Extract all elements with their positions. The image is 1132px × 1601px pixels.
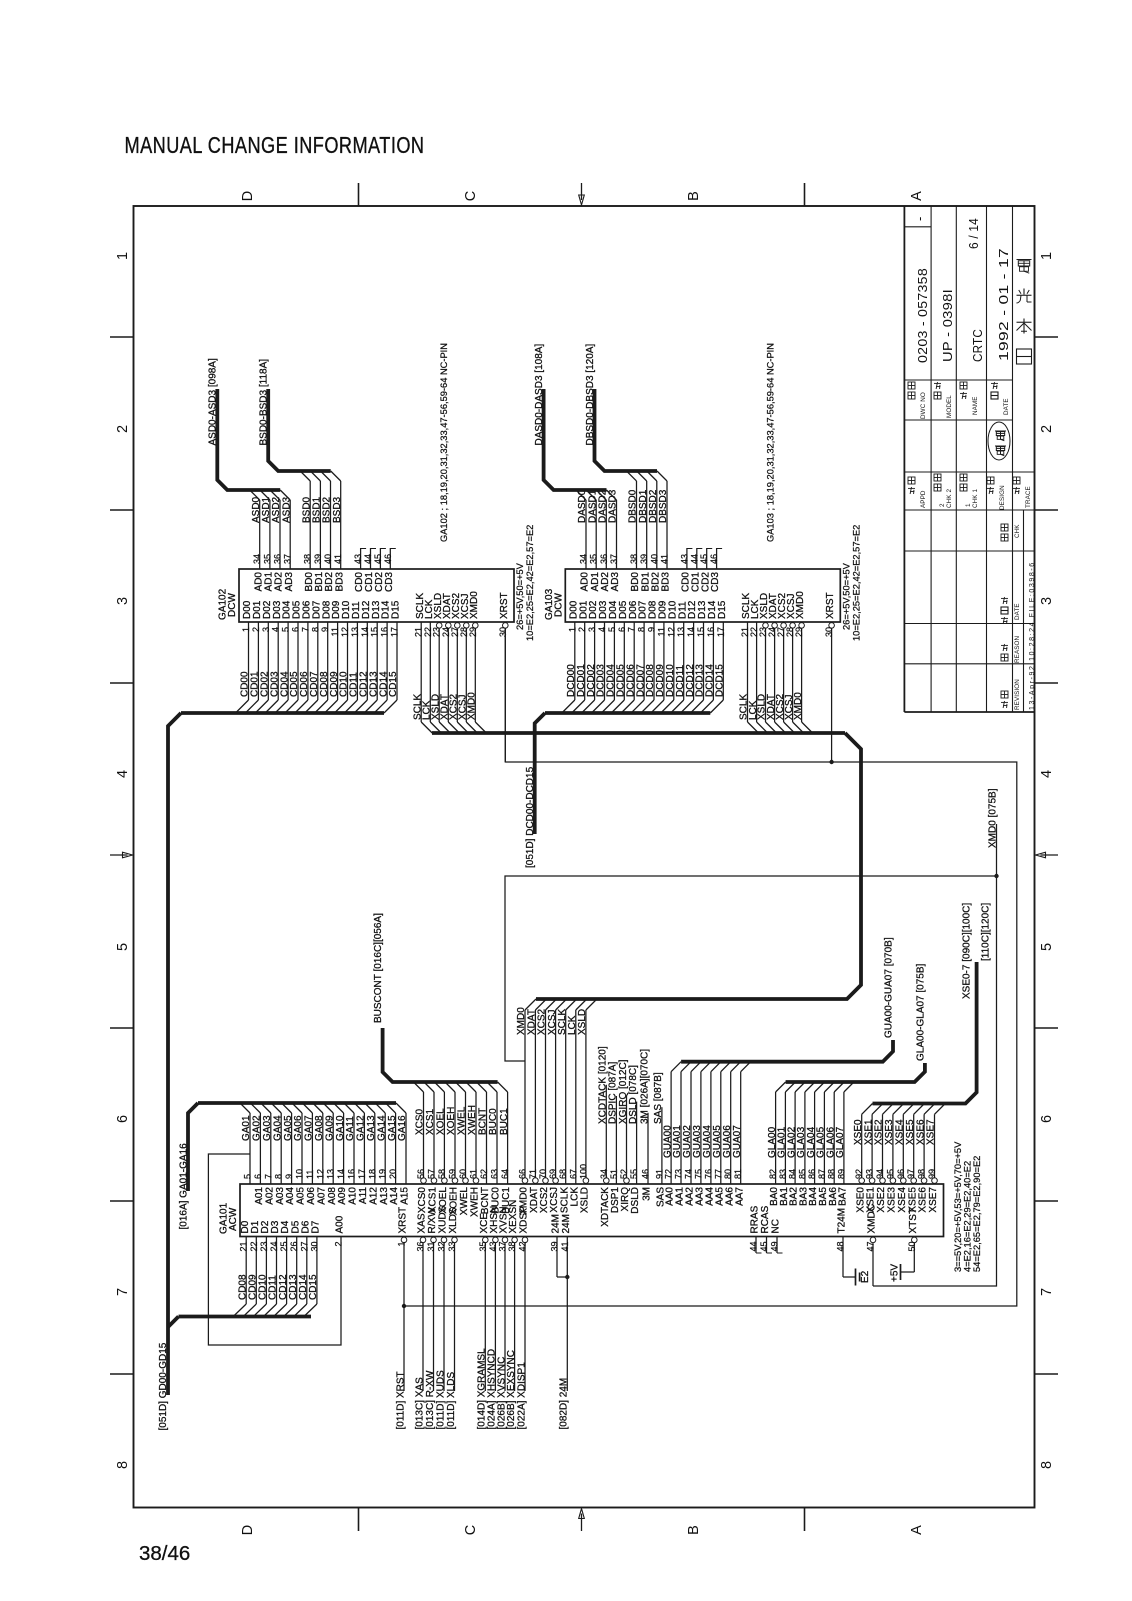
svg-text:18: 18 bbox=[367, 1169, 377, 1179]
GA102 pin 11 D09 net CD09 bbox=[325, 600, 343, 713]
svg-text:XSE6: XSE6 bbox=[915, 1119, 926, 1145]
svg-text:XOEH: XOEH bbox=[446, 1107, 457, 1135]
svg-text:DATE: DATE bbox=[1003, 398, 1010, 415]
bus XSE0-7 thick wire bbox=[873, 962, 977, 1104]
designer stamp bbox=[988, 422, 1010, 460]
GA102 pin 43 CD0 stub bbox=[353, 548, 366, 592]
svg-text:16: 16 bbox=[380, 627, 390, 637]
tick top bbox=[358, 183, 360, 206]
GA101 pin 56 XCS0 bbox=[414, 1082, 429, 1213]
svg-text:GUA00-GUA07 [070B]: GUA00-GUA07 [070B] bbox=[884, 937, 895, 1038]
svg-text:A06: A06 bbox=[306, 1187, 317, 1205]
svg-text:8: 8 bbox=[637, 627, 647, 632]
svg-text:29: 29 bbox=[468, 627, 478, 637]
svg-text:24M: 24M bbox=[561, 1214, 572, 1233]
svg-text:11: 11 bbox=[656, 627, 666, 636]
svg-text:88: 88 bbox=[827, 1169, 837, 1179]
svg-text:92: 92 bbox=[854, 1169, 864, 1179]
bus GA01-GA16 thick wire bbox=[198, 1101, 396, 1105]
GA101 pin 81 AA7 net GUA07 bbox=[732, 1062, 751, 1206]
svg-text:BCNT: BCNT bbox=[478, 1108, 489, 1135]
svg-text:GA01: GA01 bbox=[241, 1115, 252, 1141]
svg-text:3: 3 bbox=[587, 627, 597, 632]
svg-text:[011D] XUDS: [011D] XUDS bbox=[435, 1370, 446, 1430]
tick bottom bbox=[358, 1508, 360, 1532]
svg-text:DESIGN: DESIGN bbox=[999, 485, 1006, 510]
svg-text:GA04: GA04 bbox=[272, 1115, 283, 1141]
svg-text:NC: NC bbox=[771, 1219, 782, 1233]
GA103 pin 12 D10 net DCD10 bbox=[661, 600, 679, 713]
svg-text:B: B bbox=[686, 1525, 702, 1535]
GA101 pin 70 XCS2 bbox=[538, 1169, 550, 1213]
svg-text:XMD0: XMD0 bbox=[795, 591, 806, 619]
GA103 pin 34 AD0 net DASD0 bbox=[576, 489, 591, 591]
svg-text:2: 2 bbox=[251, 627, 261, 632]
svg-text:UP - 0398I: UP - 0398I bbox=[940, 289, 955, 362]
GA101 pin 68 SCLK bbox=[558, 1169, 570, 1213]
GA101 pin 46 3M net 3M bbox=[639, 1049, 652, 1201]
svg-text:11: 11 bbox=[305, 1170, 315, 1179]
GA102 pin 38 BD0 net BSD0 bbox=[300, 471, 315, 591]
svg-text:9: 9 bbox=[320, 627, 330, 632]
bus DCD00-DCD15 thick wire bbox=[545, 711, 710, 715]
svg-text:[026B] XEXSYNC: [026B] XEXSYNC bbox=[506, 1350, 517, 1429]
GA101 pin 52 XIRQ net XGIRQ bbox=[618, 1059, 631, 1211]
svg-text:XSE6: XSE6 bbox=[918, 1187, 929, 1213]
svg-text:13: 13 bbox=[326, 1169, 336, 1179]
svg-text:6: 6 bbox=[253, 1174, 263, 1179]
svg-text:29: 29 bbox=[794, 627, 804, 637]
svg-text:A00: A00 bbox=[335, 1215, 346, 1233]
title block outline bbox=[903, 206, 905, 712]
svg-text:40: 40 bbox=[323, 554, 333, 564]
GA101 pin 33 XLDS bbox=[446, 1207, 459, 1429]
svg-text:4: 4 bbox=[1039, 770, 1055, 778]
GA101 pin 98 XSE6 bbox=[915, 1104, 935, 1213]
bus GUA00-GUA07 thick wire bbox=[681, 1040, 893, 1062]
GA101 pin 62 BCNT bbox=[477, 1082, 492, 1214]
svg-text:RRAS: RRAS bbox=[750, 1205, 761, 1233]
svg-text:XMD0: XMD0 bbox=[516, 1007, 527, 1035]
IC GA103 body bbox=[565, 569, 840, 622]
GA103 pin 36 AD2 net DASD2 bbox=[596, 489, 611, 591]
GA101 pin 11 address line GA08 bbox=[313, 1103, 328, 1205]
svg-text:2: 2 bbox=[1039, 425, 1055, 433]
svg-text:7: 7 bbox=[263, 1174, 273, 1179]
svg-text:37: 37 bbox=[498, 1242, 508, 1252]
svg-text:39: 39 bbox=[639, 554, 649, 564]
svg-text:XWEH: XWEH bbox=[470, 1187, 481, 1217]
svg-text:14: 14 bbox=[686, 627, 696, 637]
svg-text:41: 41 bbox=[333, 554, 343, 564]
GA101 pin 86 BA4 net GLA04 bbox=[806, 1082, 825, 1206]
svg-text:D: D bbox=[240, 191, 256, 201]
svg-text:1: 1 bbox=[1039, 252, 1055, 260]
GA101 pin 32 XUDS bbox=[435, 1205, 448, 1429]
svg-text:BSD3: BSD3 bbox=[332, 496, 343, 523]
bus GLA00-GLA07 thick wire bbox=[786, 1063, 925, 1082]
GA103 pin 24 XDAT bbox=[766, 593, 786, 733]
GA101 pin 75 AA3 net GUA03 bbox=[692, 1062, 711, 1206]
GA101 pin 39 24M bbox=[550, 1214, 568, 1277]
tick left bbox=[110, 682, 134, 684]
svg-text:GA07: GA07 bbox=[304, 1115, 315, 1141]
GA101 pin 57 XCS1 bbox=[424, 1082, 439, 1213]
svg-text:[016A] GA01-GA16: [016A] GA01-GA16 bbox=[178, 1143, 189, 1230]
GA101 pin 24 D3 net CD11 bbox=[264, 1220, 282, 1316]
GA103 pin 8 D07 net DCD07 bbox=[631, 600, 649, 713]
svg-text:BUC1: BUC1 bbox=[499, 1108, 510, 1135]
svg-text:XMD0: XMD0 bbox=[467, 692, 478, 720]
svg-text:47: 47 bbox=[866, 1242, 876, 1252]
GA103 pin 17 D15 net DCD15 bbox=[710, 600, 728, 713]
svg-text:[110C][120C]: [110C][120C] bbox=[980, 903, 991, 961]
label NAME bbox=[960, 392, 967, 394]
GA101 pin 37 XVSN bbox=[496, 1206, 509, 1429]
GA102 pin 36 AD2 net ASD2 bbox=[270, 490, 285, 591]
svg-text:19: 19 bbox=[378, 1169, 388, 1179]
svg-text:REVISION: REVISION bbox=[1014, 679, 1021, 710]
svg-text:DBSD0-DBSD3 [120A]: DBSD0-DBSD3 [120A] bbox=[585, 344, 596, 446]
svg-text:A09: A09 bbox=[337, 1187, 348, 1205]
svg-text:CD3: CD3 bbox=[384, 572, 395, 592]
svg-text:43: 43 bbox=[353, 554, 363, 564]
drawing border frame bbox=[134, 206, 1035, 1508]
GA103 pin 39 BD1 net DBSD1 bbox=[637, 471, 652, 591]
svg-text:4=E2,16=E2,29=E2,40=E2: 4=E2,16=E2,29=E2,40=E2 bbox=[963, 1161, 973, 1272]
GA102 pin 40 BD2 net BSD2 bbox=[321, 471, 336, 591]
svg-text:69: 69 bbox=[548, 1169, 558, 1179]
svg-text:85: 85 bbox=[797, 1169, 807, 1179]
svg-text:67: 67 bbox=[568, 1169, 578, 1179]
svg-text:34: 34 bbox=[252, 554, 262, 564]
svg-text:100: 100 bbox=[578, 1164, 588, 1179]
svg-text:CD3: CD3 bbox=[710, 572, 721, 592]
svg-text:R/XW: R/XW bbox=[427, 1207, 438, 1234]
tick top bbox=[804, 183, 806, 206]
svg-text:8: 8 bbox=[310, 627, 320, 632]
svg-text:33: 33 bbox=[447, 1242, 457, 1252]
svg-text:52: 52 bbox=[619, 1169, 629, 1179]
svg-text:64: 64 bbox=[500, 1169, 510, 1179]
left centre arrow bbox=[110, 854, 128, 856]
tick right bbox=[1035, 1200, 1059, 1202]
svg-text:17: 17 bbox=[390, 627, 400, 637]
svg-text:DASD0-DASD3 [108A]: DASD0-DASD3 [108A] bbox=[534, 344, 545, 446]
svg-text:45: 45 bbox=[759, 1242, 769, 1252]
svg-text:44: 44 bbox=[363, 554, 373, 564]
svg-text:16: 16 bbox=[347, 1169, 357, 1179]
svg-text:14: 14 bbox=[360, 627, 370, 637]
svg-text:37: 37 bbox=[609, 554, 619, 564]
svg-text:SAS [087B]: SAS [087B] bbox=[653, 1072, 664, 1124]
svg-text:5: 5 bbox=[1039, 943, 1055, 951]
GA102 pin 6 D05 net CD05 bbox=[285, 600, 303, 713]
GA101 pin 45 RCAS stub bbox=[759, 1205, 772, 1253]
svg-text:AD3: AD3 bbox=[610, 572, 621, 592]
svg-text:76: 76 bbox=[703, 1169, 713, 1179]
tick left bbox=[110, 1200, 134, 1202]
svg-text:30: 30 bbox=[498, 627, 508, 637]
svg-text:10=E2,25=E2,42=E2,57=E2: 10=E2,25=E2,42=E2,57=E2 bbox=[851, 525, 861, 641]
svg-text:3: 3 bbox=[115, 597, 131, 605]
svg-text:22: 22 bbox=[249, 1242, 259, 1252]
GA101 pin 23 D2 net CD10 bbox=[253, 1220, 271, 1316]
svg-text:94: 94 bbox=[875, 1169, 885, 1179]
svg-text:DASD3: DASD3 bbox=[608, 489, 619, 523]
wire XSLD to GA101 bbox=[577, 999, 597, 1177]
svg-text:27: 27 bbox=[299, 1242, 309, 1252]
svg-text:A03: A03 bbox=[275, 1187, 286, 1205]
GA101 pin 88 BA6 net GLA06 bbox=[825, 1082, 844, 1206]
GA101 pin 8 address line GA05 bbox=[282, 1103, 297, 1205]
svg-text:6: 6 bbox=[617, 627, 627, 632]
svg-text:4: 4 bbox=[271, 627, 281, 632]
GA101 pin 94 XSE2 bbox=[874, 1104, 894, 1213]
svg-text:GA14: GA14 bbox=[376, 1115, 387, 1141]
svg-text:34: 34 bbox=[599, 1169, 609, 1179]
svg-text:56: 56 bbox=[416, 1169, 426, 1179]
GA102 pin 27 XCS2 bbox=[449, 592, 469, 733]
GA101 pin 93 XSE1 bbox=[863, 1104, 883, 1213]
svg-text:38/46: 38/46 bbox=[139, 1542, 190, 1565]
GA103 pin 16 D14 net DCD14 bbox=[700, 600, 718, 713]
wire XCSJ to GA101 bbox=[547, 999, 567, 1177]
GA101 pin 73 AA1 net GUA01 bbox=[672, 1062, 691, 1206]
svg-text:XRST: XRST bbox=[398, 1207, 409, 1234]
svg-text:7: 7 bbox=[115, 1288, 131, 1296]
GA101 pin 55 DSLD net DSLD bbox=[628, 1065, 641, 1214]
svg-text:70: 70 bbox=[538, 1169, 548, 1179]
bottom centre arrow bbox=[581, 1514, 583, 1532]
GA101 pin 16 address line GA12 bbox=[354, 1103, 369, 1204]
GA101 pin 19 address line GA15 bbox=[386, 1103, 401, 1205]
GA101 pin 99 XSE7 bbox=[926, 1104, 946, 1213]
GA101 pin 76 AA4 net GUA04 bbox=[702, 1062, 721, 1206]
GA103 pin 44 CD1 stub bbox=[689, 548, 702, 592]
svg-text:34: 34 bbox=[579, 554, 589, 564]
svg-text:12: 12 bbox=[315, 1169, 325, 1179]
label DATE bbox=[991, 392, 998, 399]
GA102 pin 7 D06 net CD06 bbox=[295, 600, 313, 713]
GA102 pin 45 CD2 stub bbox=[373, 548, 386, 592]
label DWG NO bbox=[908, 392, 915, 399]
svg-text:14: 14 bbox=[336, 1169, 346, 1179]
tick left bbox=[110, 509, 134, 511]
svg-text:GA13: GA13 bbox=[366, 1115, 377, 1141]
svg-text:D7: D7 bbox=[311, 1220, 322, 1233]
svg-text:30: 30 bbox=[309, 1242, 319, 1252]
GA103 pin 22 LCK bbox=[748, 599, 768, 733]
svg-text:[051D] GD00-GD15: [051D] GD00-GD15 bbox=[158, 1342, 169, 1430]
GA101 pin 25 D4 net CD12 bbox=[274, 1220, 292, 1316]
svg-text:+5V: +5V bbox=[890, 1264, 901, 1282]
GA101 pin 97 XSE5 bbox=[905, 1104, 925, 1213]
svg-text:CRTC: CRTC bbox=[970, 329, 985, 362]
svg-text:TRACE: TRACE bbox=[1025, 486, 1032, 508]
ground E2 symbol bbox=[856, 1269, 872, 1286]
svg-text:GA02: GA02 bbox=[252, 1115, 263, 1141]
svg-text:81: 81 bbox=[733, 1169, 743, 1179]
GA101 pin 67 LCK bbox=[568, 1169, 580, 1206]
svg-text:5: 5 bbox=[115, 943, 131, 951]
svg-text:XSE0-7 [090C][100C]: XSE0-7 [090C][100C] bbox=[962, 903, 973, 999]
GA103 pin 15 D13 net DCD13 bbox=[691, 600, 709, 713]
svg-text:A13: A13 bbox=[379, 1187, 390, 1205]
svg-text:8: 8 bbox=[1039, 1461, 1055, 1469]
svg-text:23: 23 bbox=[259, 1242, 269, 1252]
svg-text:74: 74 bbox=[684, 1169, 694, 1179]
GA101 pin 41 24M net 24M bbox=[559, 1214, 572, 1429]
wire XCS2 to GA101 bbox=[537, 999, 557, 1177]
svg-text:CD15: CD15 bbox=[308, 1274, 319, 1300]
svg-text:45: 45 bbox=[373, 554, 383, 564]
svg-text:MODEL: MODEL bbox=[946, 395, 953, 418]
svg-text:GA15: GA15 bbox=[387, 1115, 398, 1141]
svg-text:45: 45 bbox=[699, 554, 709, 564]
svg-text:DCW: DCW bbox=[227, 593, 238, 617]
svg-text:XSE7: XSE7 bbox=[928, 1187, 939, 1213]
GA102 pin 17 D15 net CD15 bbox=[384, 600, 402, 713]
GA101 pin 50 XTST bbox=[901, 1208, 919, 1272]
svg-text:GA03: GA03 bbox=[262, 1115, 273, 1141]
GA103 pin 7 D06 net DCD06 bbox=[621, 600, 639, 713]
GA101 pin 95 XSE3 bbox=[884, 1104, 904, 1213]
svg-text:40: 40 bbox=[649, 554, 659, 564]
label APPD bbox=[908, 487, 915, 489]
svg-text:31: 31 bbox=[426, 1242, 436, 1252]
GA101 pin 34 XDTACK net XCDTACK bbox=[598, 1046, 611, 1227]
svg-text:62: 62 bbox=[479, 1169, 489, 1179]
GA102 pin 13 D11 net CD11 bbox=[344, 601, 362, 713]
svg-text:13: 13 bbox=[350, 627, 360, 637]
svg-text:51: 51 bbox=[609, 1169, 619, 1179]
bus BSD0-BSD3 thick wire bbox=[268, 389, 331, 471]
GA101 pin 60 XWEL bbox=[456, 1082, 471, 1215]
GA103 pin 6 D05 net DCD05 bbox=[611, 600, 629, 713]
svg-text:XCS1: XCS1 bbox=[425, 1108, 436, 1135]
GA101 pin 63 BUC0 bbox=[487, 1082, 502, 1214]
svg-text:46: 46 bbox=[641, 1169, 651, 1179]
GA103 pin 29 XMD0 bbox=[793, 591, 813, 733]
svg-text:6: 6 bbox=[1039, 1115, 1055, 1123]
revision table row lines bbox=[904, 550, 1034, 552]
svg-text:36: 36 bbox=[273, 554, 283, 564]
GA102 pin 39 BD1 net BSD1 bbox=[310, 471, 325, 591]
svg-text:REASON: REASON bbox=[1014, 635, 1021, 663]
net XRST wire bbox=[404, 629, 1017, 1306]
tick right bbox=[1035, 682, 1059, 684]
svg-text:XCS0: XCS0 bbox=[415, 1108, 426, 1135]
svg-text:9: 9 bbox=[647, 627, 657, 632]
svg-text:26=+5V,50=+5V: 26=+5V,50=+5V bbox=[515, 562, 525, 630]
revision table label CHK bbox=[1001, 534, 1008, 541]
GA101 pin address line GA01 bbox=[240, 1103, 253, 1184]
svg-text:XLDS: XLDS bbox=[448, 1207, 459, 1233]
svg-text:11: 11 bbox=[330, 627, 340, 636]
svg-text:25: 25 bbox=[279, 1242, 289, 1252]
svg-text:58: 58 bbox=[437, 1169, 447, 1179]
svg-text:50: 50 bbox=[907, 1242, 917, 1252]
svg-text:XSLD: XSLD bbox=[577, 1009, 588, 1035]
svg-text:96: 96 bbox=[896, 1169, 906, 1179]
svg-text:XTST: XTST bbox=[908, 1208, 919, 1234]
svg-text:XSE4: XSE4 bbox=[895, 1119, 906, 1145]
GA103 pin 46 CD3 stub bbox=[709, 548, 722, 592]
revision table label REVISION bbox=[1001, 701, 1008, 703]
GA102 pin 29 XMD0 bbox=[467, 591, 487, 733]
svg-text:A14: A14 bbox=[389, 1187, 400, 1205]
svg-text:XMD0: XMD0 bbox=[469, 591, 480, 619]
svg-text:[011D] XLDS: [011D] XLDS bbox=[446, 1372, 457, 1430]
svg-text:A02: A02 bbox=[264, 1187, 275, 1205]
net XMD0 wire bbox=[996, 824, 998, 876]
svg-text:B: B bbox=[686, 191, 702, 201]
svg-text:35: 35 bbox=[478, 1242, 488, 1252]
svg-text:71: 71 bbox=[528, 1169, 538, 1179]
tick right bbox=[1035, 509, 1059, 511]
GA102 pin 35 AD1 net ASD1 bbox=[260, 490, 275, 591]
svg-text:66: 66 bbox=[518, 1169, 528, 1179]
svg-text:XAS: XAS bbox=[417, 1213, 428, 1233]
svg-text:XSE5: XSE5 bbox=[905, 1119, 916, 1145]
wire XMD0 to GA101 bbox=[516, 999, 536, 1177]
svg-text:A: A bbox=[909, 191, 925, 201]
top centre arrow bbox=[581, 183, 583, 200]
svg-text:GA10: GA10 bbox=[335, 1115, 346, 1141]
svg-text:21: 21 bbox=[239, 1242, 249, 1252]
svg-text:93: 93 bbox=[865, 1169, 875, 1179]
bus SCLK/LCK/XSLD/XDAT/XCS2/XCSJ/XMD0 thick wire bbox=[432, 731, 845, 735]
svg-text:A12: A12 bbox=[368, 1187, 379, 1205]
svg-text:XDSP: XDSP bbox=[519, 1206, 530, 1234]
svg-text:XWEL: XWEL bbox=[459, 1187, 470, 1216]
GA103 pin 1 D00 net DCD00 bbox=[562, 600, 580, 713]
svg-text:XMD0: XMD0 bbox=[793, 692, 804, 720]
svg-text:86: 86 bbox=[807, 1169, 817, 1179]
svg-text:3: 3 bbox=[261, 627, 271, 632]
svg-text:AA7: AA7 bbox=[734, 1187, 745, 1206]
svg-text:10: 10 bbox=[295, 1169, 305, 1179]
svg-text:38: 38 bbox=[629, 554, 639, 564]
svg-text:38: 38 bbox=[507, 1242, 517, 1252]
svg-text:12: 12 bbox=[666, 627, 676, 637]
svg-text:[013C] R-XW: [013C] R-XW bbox=[425, 1370, 436, 1429]
svg-text:BA7: BA7 bbox=[838, 1187, 849, 1206]
tick left bbox=[110, 1027, 134, 1029]
svg-text:1: 1 bbox=[567, 627, 577, 632]
svg-text:[011D] XRST: [011D] XRST bbox=[395, 1371, 406, 1429]
GA102 pin 1 D00 net CD00 bbox=[236, 600, 254, 713]
svg-text:6: 6 bbox=[291, 627, 301, 632]
svg-text:3: 3 bbox=[1039, 597, 1055, 605]
svg-text:D: D bbox=[240, 1525, 256, 1535]
svg-text:XSE4: XSE4 bbox=[897, 1187, 908, 1213]
svg-text:APPD: APPD bbox=[920, 490, 927, 508]
svg-text:6: 6 bbox=[115, 1115, 131, 1123]
GA102 pin 23 XSLD bbox=[430, 593, 450, 733]
revision table label REASON bbox=[1001, 654, 1008, 661]
tick right bbox=[1035, 336, 1059, 338]
svg-text:20: 20 bbox=[388, 1169, 398, 1179]
svg-text:ASD3: ASD3 bbox=[281, 496, 292, 523]
GA101 pin 35 XCE bbox=[477, 1213, 490, 1430]
GA102 pin 12 D10 net CD10 bbox=[335, 600, 353, 713]
svg-text:1: 1 bbox=[241, 627, 251, 632]
svg-text:A05: A05 bbox=[296, 1187, 307, 1205]
GA101 pin 9 address line GA06 bbox=[292, 1103, 307, 1205]
svg-text:7: 7 bbox=[300, 627, 310, 632]
